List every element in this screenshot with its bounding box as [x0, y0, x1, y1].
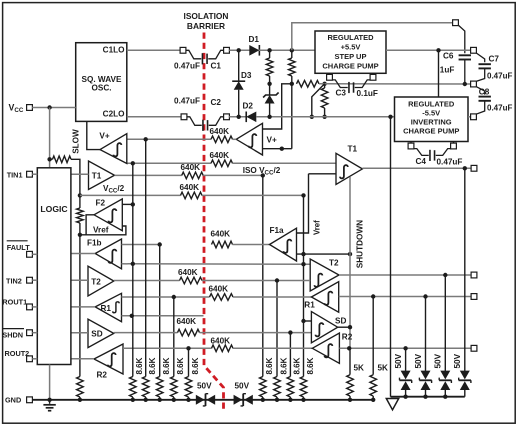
junction T2 row bus: [275, 278, 279, 282]
junction F2 feedback: [131, 202, 135, 206]
svg-text:5K: 5K: [378, 363, 389, 372]
op-amp R1 (logic side): [95, 293, 121, 321]
junction Vref node: [78, 233, 82, 237]
junction feedback row left: [290, 82, 294, 86]
oscillator box U1 SQ. WAVE OSC.: [76, 43, 127, 122]
junction on V+ bottom feedback: [280, 147, 284, 151]
svg-text:T2: T2: [329, 259, 339, 268]
wire step-up to C7 pin: [386, 49, 471, 51]
junction SD output: [348, 325, 352, 329]
wire feedback row to C8 pin: [319, 83, 471, 85]
svg-text:REGULATED: REGULATED: [408, 100, 455, 109]
svg-text:8.6K: 8.6K: [306, 357, 315, 374]
svg-text:ISOLATION: ISOLATION: [184, 11, 229, 21]
op-amp V+ buffer (logic side): [99, 131, 126, 163]
wire Vref vertical: [297, 174, 322, 235]
wire divider bus to ground rail: [79, 397, 81, 400]
wire row1 to V+ amp: [233, 138, 237, 140]
svg-text:50V: 50V: [197, 381, 212, 390]
wire F1a bottom feedback: [297, 253, 351, 255]
svg-text:Vref: Vref: [93, 226, 109, 235]
junction SD row bus: [288, 330, 292, 334]
wire F1b upper input: [122, 244, 160, 246]
svg-text:50V: 50V: [453, 353, 462, 368]
capacitor C2 0.47uF: [174, 97, 224, 131]
wire oscillator to V+ buffer: [87, 121, 100, 149]
resistor vertical (x=324.6): [321, 84, 328, 117]
label ISOLATION BARRIER: [184, 11, 229, 31]
wire R1 input from line: [339, 296, 471, 298]
pin GND: [5, 396, 32, 405]
svg-text:D2: D2: [243, 102, 254, 111]
wire R2 row: [123, 347, 212, 349]
pin SHDN: [2, 329, 37, 340]
resistor 640K SD row: [177, 317, 200, 336]
svg-text:1uF: 1uF: [440, 66, 455, 75]
svg-text:C3: C3: [336, 88, 347, 97]
wire F2 top feedback: [122, 203, 133, 205]
wire row3 to ISO Vcc/2: [203, 166, 281, 177]
pin top right (step-up output): [453, 20, 459, 26]
pin V- out: [471, 114, 477, 120]
svg-text:8.6K: 8.6K: [148, 357, 157, 374]
svg-text:640K: 640K: [209, 285, 229, 294]
junction SD input bus: [301, 319, 305, 323]
wire V+ amp bottom feedback: [263, 148, 292, 150]
wire D3 cathode to V+ row: [238, 90, 240, 117]
resistor divider lower (Vref to GND): [77, 377, 84, 397]
svg-text:CHARGE PUMP: CHARGE PUMP: [403, 127, 459, 136]
svg-text:INVERTING: INVERTING: [411, 118, 452, 127]
wire LOGIC to ground: [49, 365, 51, 400]
junction row2 bus: [131, 161, 135, 165]
junction T1 output TVS: [463, 166, 467, 170]
wire F1a row: [233, 244, 270, 246]
zener pair 50V (T1 out): [453, 168, 471, 396]
svg-text:R1: R1: [304, 301, 315, 310]
svg-text:8.6K: 8.6K: [162, 357, 171, 374]
wire T2 row to isolated: [202, 280, 310, 282]
svg-text:GND: GND: [5, 396, 21, 405]
svg-text:LOGIC: LOGIC: [40, 204, 67, 214]
svg-text:TIN1: TIN1: [7, 170, 23, 179]
wire ground rail: [32, 399, 373, 401]
svg-text:OSC.: OSC.: [91, 84, 111, 93]
svg-text:50V: 50V: [235, 381, 250, 390]
svg-text:CHARGE PUMP: CHARGE PUMP: [322, 62, 378, 71]
wire SHDN to SD: [71, 332, 88, 334]
resistor 8.6K L3: [156, 357, 171, 402]
wire T2 output row: [339, 274, 471, 276]
pin ROUT1: [2, 298, 37, 310]
svg-text:ROUT2: ROUT2: [5, 349, 30, 358]
resistor 640K R1 row: [209, 285, 234, 301]
pin C1 left: [180, 47, 186, 53]
wire C1 to D1: [229, 49, 249, 51]
junction D3 bottom: [237, 115, 241, 119]
svg-text:0.47uF: 0.47uF: [487, 71, 512, 80]
svg-text:0.47uF: 0.47uF: [487, 104, 512, 113]
capacitor C6 1uF: [443, 52, 471, 84]
svg-text:8.6K: 8.6K: [191, 357, 200, 374]
wire bus x=188.5 down: [188, 348, 190, 376]
wire bus x=145.7 down: [145, 139, 147, 376]
zener pair 50V (left): [196, 381, 215, 406]
op-amp SD (isolated): [311, 312, 346, 343]
svg-text:C8: C8: [479, 88, 490, 97]
resistor 5K (R2 line): [347, 348, 364, 402]
resistor 640K row2: [210, 151, 233, 167]
svg-text:D1: D1: [249, 35, 260, 44]
svg-text:0.47uF: 0.47uF: [174, 97, 200, 106]
junction R1 5K: [371, 294, 375, 298]
junction D3 top: [237, 48, 241, 52]
resistor 8.6K R2: [274, 357, 289, 402]
svg-text:STEP UP: STEP UP: [335, 52, 367, 61]
box LOGIC: [37, 168, 71, 365]
svg-text:640K: 640K: [180, 183, 200, 192]
svg-text:C7: C7: [489, 55, 500, 64]
svg-text:V+: V+: [267, 135, 277, 144]
resistor 5K (R1 line): [370, 297, 388, 402]
wire R1 input row: [122, 296, 210, 298]
junction shunt bottom: [267, 115, 271, 119]
wire isolated ground bus: [390, 117, 392, 397]
wire R1 feedback row: [122, 315, 204, 317]
label SHUTDOWN: [356, 220, 365, 268]
svg-text:F1b: F1b: [87, 238, 102, 247]
label Vref: [93, 226, 109, 235]
svg-text:640K: 640K: [211, 230, 231, 239]
wire shutdown bus: [349, 177, 351, 348]
junction Vcc: [47, 105, 51, 109]
wire TIN1 to T1: [71, 173, 89, 175]
resistor 640K row4: [180, 183, 202, 199]
capacitor C1 0.47uF: [174, 50, 224, 70]
wire row2 from V+ corner: [127, 162, 211, 164]
op-amp F1b: [87, 238, 122, 268]
svg-text:V+: V+: [99, 131, 109, 140]
junction 1uF branch: [436, 48, 440, 52]
svg-text:8.6K: 8.6K: [279, 357, 288, 374]
resistor 640K F1a row: [211, 230, 233, 248]
wire bus x=173.8 down: [173, 297, 175, 377]
node Vcc: [9, 102, 33, 114]
svg-text:F2: F2: [96, 198, 106, 207]
svg-text:0.1uF: 0.1uF: [357, 89, 378, 98]
resistor 640K row1: [210, 127, 233, 143]
zener diode shunt: [263, 84, 279, 117]
junction R1 TVS: [423, 294, 427, 298]
svg-text:C1: C1: [211, 62, 222, 71]
wire divider bus to Vref: [79, 223, 81, 235]
svg-text:8.6K: 8.6K: [135, 357, 144, 374]
wire ISO Vcc/2 bus down: [262, 175, 264, 376]
svg-text:+5.5V: +5.5V: [341, 43, 361, 52]
junction right bus row264: [301, 262, 305, 266]
svg-text:-5.5V: -5.5V: [422, 109, 440, 118]
svg-text:0.47uF: 0.47uF: [174, 61, 200, 70]
junction row1 bus: [144, 137, 148, 141]
junction C6 bottom: [463, 82, 467, 86]
junction SLOW resistor top: [47, 157, 51, 161]
wire bus x=132.8 down: [132, 163, 134, 376]
wire F1b output to FAULT: [71, 253, 95, 255]
svg-text:SD: SD: [335, 316, 346, 325]
op-amp T2 (logic side): [88, 266, 114, 296]
junction R2 5K: [347, 346, 351, 350]
wire divider bus upper: [79, 195, 81, 208]
wire R2 row to isolated: [233, 347, 312, 349]
svg-text:C4: C4: [416, 157, 427, 166]
svg-text:FAULT: FAULT: [7, 243, 31, 252]
svg-text:C1LO: C1LO: [103, 45, 125, 54]
svg-text:SHUTDOWN: SHUTDOWN: [356, 220, 365, 268]
wire SLOW to divider bus: [71, 159, 80, 195]
svg-text:T2: T2: [91, 277, 101, 286]
label SLOW: [72, 129, 81, 154]
svg-text:T1: T1: [92, 171, 102, 180]
ground symbol: [43, 400, 55, 411]
svg-text:D3: D3: [241, 71, 252, 80]
junction R2 TVS: [403, 346, 407, 350]
svg-text:F1a: F1a: [270, 226, 285, 235]
box REGULATED +5.5V STEP UP CHARGE PUMP: [315, 31, 386, 73]
capacitor C7 0.47uF: [476, 53, 512, 82]
op-amp V+ (isolated side): [236, 123, 277, 155]
pin T1OUT: [471, 165, 477, 171]
node ISO Vcc/2 bus: [261, 173, 265, 177]
pin C1 right: [224, 47, 230, 53]
diode D1: [249, 35, 260, 56]
wire V+ amp top feedback: [263, 84, 292, 129]
junction shutdown bus mid: [348, 252, 352, 256]
junctions isolated rail: [403, 395, 447, 399]
wire divider bus lower: [79, 235, 81, 377]
resistor shunt (under D1): [266, 50, 273, 84]
svg-text:640K: 640K: [178, 268, 198, 277]
resistor divider upper (Vcc/2 to Vref): [77, 208, 84, 223]
wire inverting pump to pin: [468, 116, 471, 118]
junction Vcc/2 right bus: [301, 193, 305, 197]
pin T2OUT: [471, 272, 477, 278]
junction shunt mid: [267, 82, 271, 86]
junction ground bus top: [388, 115, 392, 119]
resistor 8.6K L1: [130, 357, 145, 402]
wire row1 V+ output: [127, 138, 211, 140]
junction F1b feedback bus: [131, 262, 135, 266]
wire D3 anode: [238, 50, 240, 81]
op-amp R2 (isolated): [312, 332, 352, 363]
svg-text:ROUT1: ROUT1: [2, 298, 27, 307]
resistor 8.6K L2: [142, 357, 157, 402]
pin TIN2: [6, 277, 37, 286]
label Vcc/2: [103, 184, 125, 195]
wire diagonal branch: [310, 84, 325, 119]
resistor 640K T2 row: [178, 268, 202, 284]
op-amp R2 (logic side): [94, 344, 123, 380]
wire row2 to T1 input: [233, 162, 337, 164]
pin ROUT2: [5, 349, 38, 361]
wire pin to C6 top: [458, 25, 465, 53]
wire Vcc to oscillator: [32, 107, 75, 109]
junction R1 feedback bus: [130, 314, 134, 318]
wire C1LO to pin: [127, 49, 181, 51]
op-amp T2 (isolated): [310, 259, 339, 291]
zener pair 50V (R1 line): [414, 297, 432, 397]
pin C7/C8 mid: [471, 81, 477, 87]
pin C7 top: [471, 47, 477, 53]
wire 1uF branch down: [439, 50, 455, 97]
junction Vcc/2 row: [78, 193, 82, 197]
resistor 8.6K R3: [287, 357, 302, 402]
wire bus x=303.5 down: [303, 195, 305, 376]
wire F1b lower feedback row: [122, 263, 311, 265]
wire R2 input from line: [339, 347, 470, 349]
wire R1 row to isolated: [233, 296, 311, 298]
op-amp F2: [94, 198, 122, 230]
junction T2 out TVS: [443, 273, 447, 277]
junction riser top: [290, 48, 294, 52]
junction rail at logic: [47, 398, 51, 402]
junction feedback row right: [322, 82, 326, 86]
op-amp SD (logic side): [88, 319, 114, 347]
wire Vref loop: [86, 215, 94, 235]
wire T2 row: [114, 280, 180, 282]
svg-text:50V: 50V: [434, 353, 443, 368]
junction R1 row bus: [172, 295, 176, 299]
junction R2 row bus: [186, 346, 190, 350]
capacitor C4 0.47uF: [408, 142, 462, 167]
svg-text:5K: 5K: [354, 363, 365, 372]
wire D2 to inverting pump: [256, 116, 394, 118]
svg-text:8.6K: 8.6K: [293, 357, 302, 374]
svg-text:R1: R1: [101, 304, 112, 313]
zener pair 50V (right): [234, 381, 253, 406]
svg-text:T1: T1: [348, 145, 358, 154]
resistor 8.6K L5: [185, 357, 200, 402]
wire T1 output row3: [115, 174, 182, 176]
wire row4 to right bus: [202, 194, 304, 196]
pin C2 right: [224, 114, 230, 120]
wire T1 output: [362, 167, 470, 169]
pin TIN1: [7, 170, 38, 179]
isolation barrier (red dashed line): [204, 33, 224, 411]
svg-text:640K: 640K: [181, 163, 201, 172]
wire bus x=160 down: [159, 245, 161, 377]
zener pair 50V (T2 out): [434, 275, 452, 397]
diode D3: [232, 71, 252, 90]
junction x=324.6 on V+ row: [322, 115, 326, 119]
wire C2 to D2: [229, 116, 246, 118]
resistor 8.6K L4: [171, 357, 186, 402]
op-amp T1 (isolated driver): [336, 145, 362, 185]
svg-text:SD: SD: [91, 330, 102, 339]
wire SD row to isolated: [200, 332, 312, 334]
zener pair 50V (R2 line): [394, 348, 412, 396]
wire SD input stub: [304, 320, 312, 322]
wire C2LO to pin: [127, 116, 182, 118]
svg-text:8.6K: 8.6K: [176, 357, 185, 374]
svg-text:REGULATED: REGULATED: [327, 33, 374, 42]
junction F1a row bus: [158, 242, 162, 246]
svg-text:0.47uF: 0.47uF: [437, 157, 463, 166]
pin C2 left: [181, 114, 187, 120]
resistor 8.6K R4: [300, 357, 315, 402]
svg-text:SHDN: SHDN: [2, 330, 23, 339]
svg-text:SLOW: SLOW: [72, 129, 81, 154]
svg-text:50V: 50V: [394, 353, 403, 368]
box REGULATED -5.5V INVERTING CHARGE PUMP: [395, 97, 469, 142]
op-amp R1 (isolated): [304, 282, 338, 313]
svg-text:C2LO: C2LO: [103, 110, 125, 119]
resistor 640K row3: [181, 163, 204, 179]
wire D1 to charge pump: [259, 49, 315, 51]
svg-text:C6: C6: [443, 52, 454, 61]
wire SD output to shutdown bus: [338, 326, 350, 328]
pin FAULT: [7, 241, 38, 257]
resistor SLOW (horizontal): [50, 156, 71, 163]
svg-text:C2: C2: [211, 98, 222, 107]
resistor feedback row (horizontal): [297, 81, 320, 88]
wire Vcc down to SLOW divider: [49, 108, 51, 169]
svg-text:BARRIER: BARRIER: [187, 21, 225, 31]
svg-text:R2: R2: [97, 371, 108, 380]
svg-text:640K: 640K: [177, 317, 197, 326]
wire riser to top rail: [292, 23, 453, 51]
pin R1IN: [471, 294, 477, 300]
svg-text:TIN2: TIN2: [6, 277, 22, 286]
wire R1 output to ROUT1: [71, 306, 95, 308]
wire R2 output to ROUT2: [71, 358, 94, 360]
resistor 640K R2 row: [211, 336, 233, 351]
pin R2IN: [471, 345, 477, 351]
op-amp F1a: [270, 226, 297, 261]
resistor 8.6K R1: [260, 357, 275, 402]
wire bus x=290.4 down: [289, 333, 291, 377]
wire SD row: [114, 332, 178, 334]
junction rail at divider: [78, 398, 82, 402]
capacitor C3 0.1uF: [327, 73, 378, 98]
wire feedback column down: [291, 84, 293, 149]
svg-text:50V: 50V: [414, 353, 423, 368]
wire isolated ground rail: [391, 396, 465, 398]
resistor feedback (x=291.8): [289, 50, 296, 84]
wire Vref rail: [80, 226, 126, 235]
op-amp T1 (logic side): [89, 161, 115, 190]
wire Vcc/2 row: [80, 194, 181, 196]
capacitor C8 0.47uF: [476, 87, 512, 115]
wire T1 lower input Vref: [309, 173, 337, 175]
wire TIN2 to T2: [71, 279, 88, 281]
svg-text:Vref: Vref: [313, 220, 322, 235]
wire bus x=277 down: [276, 281, 278, 377]
junction F1a feedback at bus: [301, 252, 305, 256]
junction shunt resistor top: [267, 48, 271, 52]
svg-text:8.6K: 8.6K: [265, 357, 274, 374]
svg-text:R2: R2: [342, 332, 353, 341]
ground symbol isolated (triangle): [386, 399, 398, 410]
diode D2: [243, 102, 257, 123]
svg-text:640K: 640K: [211, 336, 231, 345]
